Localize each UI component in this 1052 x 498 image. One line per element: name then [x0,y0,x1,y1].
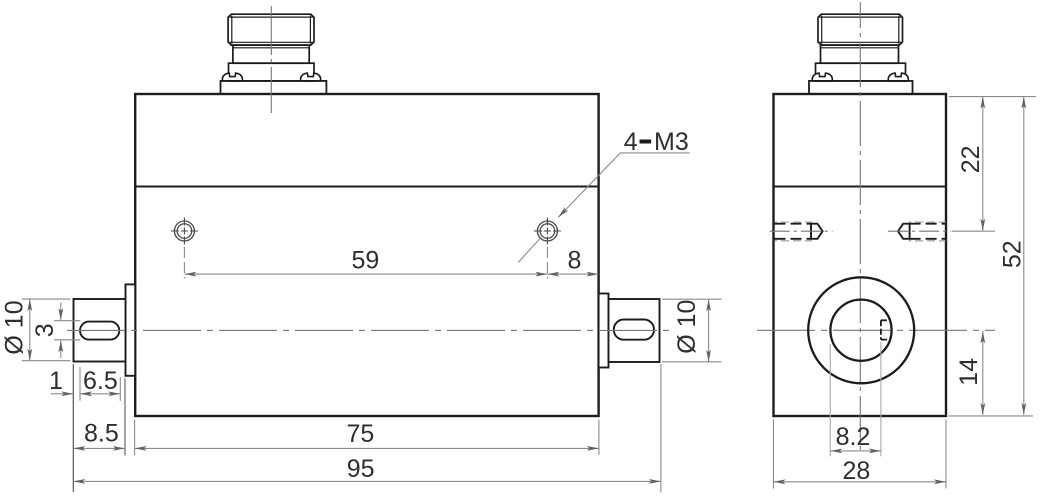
svg-text:8: 8 [567,247,581,275]
extension line body left bottom side [773,420,775,489]
dimension 75 [135,447,599,449]
svg-text:22: 22 [957,145,985,173]
set screw hole left side: hidden hole lines [775,223,812,225]
set screw hole left side: thread end line [810,222,812,242]
extension line slot right [119,377,121,401]
right shaft [609,299,660,362]
extension line body top right [949,96,1036,98]
horizontal centerline side view [757,329,995,331]
connector base plate side [809,81,913,94]
connector knurled nut [228,14,314,45]
dimension 28 [774,481,947,483]
hole right center extension [546,247,548,279]
connector neck [233,45,309,63]
set screw hole left side: thread major lines [775,221,812,223]
body cover parting line side [774,185,947,187]
extension line body bottom right [948,415,1033,417]
leader line 4-M3 [620,152,689,154]
left shaft [74,299,126,362]
set screw hole right side: hidden hole lines [910,223,947,225]
left shaft keyway slot [80,322,119,340]
dimension 8.2 [830,450,881,452]
set screw hole right side: thread end line [908,222,910,242]
extension line body right bottom [598,420,600,455]
connector screw right [301,73,321,81]
dimension 95 [73,480,661,482]
body cover parting line [135,185,598,187]
svg-text:3: 3 [31,323,59,337]
set screw hole left side: drill point [811,224,823,239]
svg-text:75: 75 [346,420,374,448]
svg-text:Ø 10: Ø 10 [1,300,29,354]
svg-text:8.2: 8.2 [836,423,871,451]
connector base plate [221,81,327,94]
extension line body left bottom [134,420,136,456]
dimension 59 [184,273,547,275]
right shaft keyway slot [614,320,654,340]
dimension 8.5 [73,447,125,449]
svg-text:M3: M3 [654,128,689,156]
dimension 3 [60,303,62,321]
right flange [599,294,609,368]
connector collar [229,63,315,81]
hole left center extension [183,247,185,279]
connector centerline [270,6,272,113]
shaft bore outer circle [808,277,914,383]
set screw hole right side: thread major lines [909,221,946,223]
extension line shaft end left [72,364,74,492]
connector neck side [821,45,899,63]
svg-text:Ø 10: Ø 10 [673,300,701,354]
body side view [774,94,947,416]
extension line shaft end right [660,364,662,493]
mounting hole right (front) [534,218,561,245]
dimension 8 [547,273,598,275]
extension line body right bottom side [945,420,947,489]
connector screw left [222,73,242,81]
svg-text:8.5: 8.5 [84,420,119,448]
dimension Ø10 right [708,299,710,362]
svg-text:28: 28 [842,457,870,485]
keyway hidden lines [880,320,882,339]
connector collar side [816,63,906,81]
connector screw right side [888,73,908,81]
left flange [126,284,136,375]
extension line keyway flat [880,342,882,456]
dimension Ø10 right: extension lines [662,298,722,300]
svg-text:6.5: 6.5 [83,367,118,395]
svg-text:1: 1 [49,367,63,395]
dimension 1 [51,393,73,395]
dimension 14 [982,331,984,415]
dimension 3: extension lines [54,320,80,322]
set screw hole right side: drill point [898,224,910,239]
svg-text:14: 14 [955,358,983,386]
dimension Ø10 left [29,299,31,361]
extension line bore left [829,344,831,456]
svg-text:4: 4 [624,128,638,156]
dimension Ø10 left: extension lines [22,298,71,300]
dimension 52 [1023,97,1025,415]
mounting hole left (front) [171,218,198,245]
svg-text:52: 52 [999,240,1027,268]
dimension 6.5 [80,393,120,395]
extension of hole centerline for dim 22 [952,230,995,232]
dimension 22 [982,97,984,231]
svg-text:59: 59 [351,246,379,274]
extension line flange left [124,379,126,456]
connector knurled nut side [818,14,903,45]
shaft bore inner circle [830,300,891,361]
main horizontal centerline front view [67,329,672,331]
body front view [135,94,598,416]
set screw hole left side: centerline [770,230,833,232]
connector screw left side [812,73,832,81]
vertical centerline side view [859,2,861,455]
extension line slot left [79,367,81,401]
svg-text:95: 95 [347,455,375,483]
set screw hole right side: centerline [888,230,951,232]
